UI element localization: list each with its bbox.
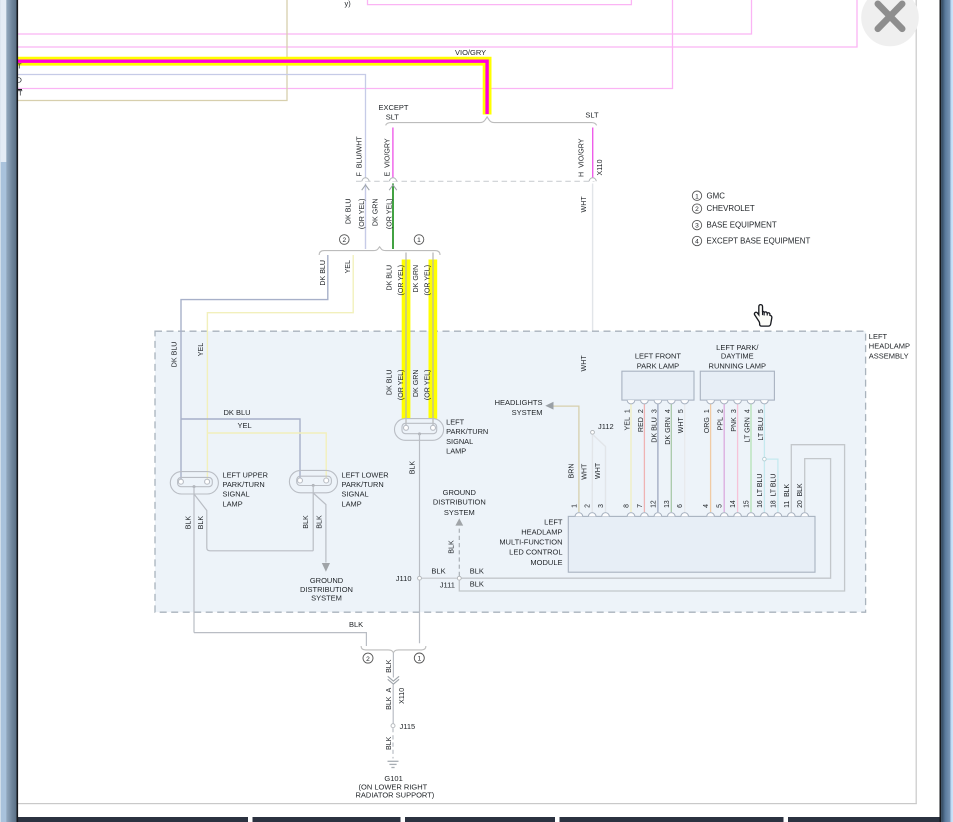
- highlight band DK GRN (OR YEL): [429, 260, 438, 419]
- svg-text:(OR YEL): (OR YEL): [424, 370, 432, 401]
- arrow ground distribution right: [455, 518, 463, 525]
- svg-text:HEADLIGHTS: HEADLIGHTS: [495, 398, 543, 407]
- svg-text:SLT: SLT: [386, 113, 400, 122]
- svg-text:3: 3: [695, 223, 699, 230]
- wire WHT to pin 3: [594, 435, 606, 512]
- svg-text:y): y): [345, 0, 351, 8]
- svg-text:18 LT BLU: 18 LT BLU: [770, 474, 777, 508]
- splice J112: [591, 430, 595, 434]
- svg-text:(OR YEL): (OR YEL): [397, 370, 405, 401]
- mouse cursor hand: [754, 305, 771, 327]
- svg-text:RUNNING LAMP: RUNNING LAMP: [709, 361, 767, 370]
- arrow headlights system: [545, 402, 553, 410]
- page border bottom: [18, 803, 917, 804]
- svg-text:12: 12: [650, 500, 657, 508]
- svg-text:BLK: BLK: [385, 736, 393, 750]
- svg-text:2: 2: [585, 504, 592, 508]
- chevron pin F: [362, 185, 370, 190]
- box LEFT FRONT PARK LAMP: [622, 371, 694, 400]
- svg-text:SIGNAL: SIGNAL: [223, 490, 250, 499]
- svg-text:BLK: BLK: [315, 515, 323, 529]
- svg-text:WHT 5: WHT 5: [677, 409, 685, 433]
- svg-text:E VIO/GRY: E VIO/GRY: [384, 138, 392, 176]
- svg-text:2: 2: [366, 656, 370, 663]
- svg-text:LAMP: LAMP: [446, 447, 466, 456]
- svg-text:BLK: BLK: [302, 515, 310, 529]
- svg-text:DK GRN: DK GRN: [372, 199, 380, 227]
- svg-text:YEL: YEL: [238, 421, 252, 430]
- svg-text:WHT: WHT: [580, 463, 588, 480]
- wire ORG pin 4: [710, 400, 712, 512]
- pin 6 bump: [681, 513, 689, 517]
- svg-text:LEFT: LEFT: [544, 517, 563, 526]
- pin 3 bump: [602, 513, 610, 517]
- splice J111: [457, 576, 461, 580]
- node circled 1 bottom: [414, 653, 424, 663]
- wire LT BLU branch pin 18: [767, 459, 778, 512]
- svg-text:BLK: BLK: [349, 620, 363, 629]
- pin 4 bump: [707, 513, 715, 517]
- svg-text:DK BLU: DK BLU: [224, 408, 251, 417]
- svg-text:1: 1: [417, 656, 421, 663]
- pin 13 bump: [668, 513, 676, 517]
- svg-text:1: 1: [571, 504, 578, 508]
- wire PNK pin 14: [737, 400, 739, 512]
- svg-text:DK BLU: DK BLU: [319, 260, 327, 286]
- svg-text:H VIO/GRY: H VIO/GRY: [578, 138, 586, 177]
- svg-text:LAMP: LAMP: [223, 499, 243, 508]
- svg-text:16 LT BLU: 16 LT BLU: [757, 474, 764, 508]
- pin E bump: [390, 178, 397, 181]
- svg-text:LAMP: LAMP: [342, 499, 362, 508]
- wire DK BLU to upper lamp: [181, 255, 328, 481]
- svg-text:DAYTIME: DAYTIME: [721, 352, 754, 361]
- node legend 1 GMC: [692, 191, 701, 200]
- lamp LEFT UPPER PARK/TURN SIGNAL LAMP: [170, 472, 218, 494]
- svg-text:1: 1: [417, 237, 421, 244]
- pin 15 bump: [747, 513, 755, 517]
- svg-text:LEFT FRONT: LEFT FRONT: [635, 352, 682, 361]
- svg-text:DK GRN: DK GRN: [412, 265, 420, 293]
- svg-text:4: 4: [703, 504, 710, 508]
- wire YEL pin 8: [630, 400, 632, 512]
- svg-text:6: 6: [677, 504, 684, 508]
- svg-text:5: 5: [717, 504, 724, 508]
- svg-text:GROUND: GROUND: [310, 576, 344, 585]
- svg-text:X110: X110: [596, 159, 604, 175]
- svg-text:LEFT UPPER: LEFT UPPER: [223, 470, 268, 479]
- wire LT BLU pin 16: [763, 400, 765, 512]
- splice LT BLU: [763, 457, 767, 461]
- wire pink PNK horizontal 3: [18, 0, 673, 89]
- svg-text:GMC: GMC: [707, 191, 726, 200]
- svg-text:VIO/GRY: VIO/GRY: [455, 48, 486, 57]
- wire LT GRN pin 15: [750, 400, 752, 512]
- svg-text:CHEVROLET: CHEVROLET: [707, 204, 755, 213]
- wire BLU/WHT lavender from left: [18, 75, 366, 182]
- wire BLK dashed to ground: [392, 728, 394, 758]
- pin 16 bump: [761, 513, 769, 517]
- pin 7 bump: [641, 513, 649, 517]
- svg-text:BLK: BLK: [385, 659, 393, 673]
- svg-text:J115: J115: [400, 722, 416, 731]
- pin 5 bump: [720, 513, 728, 517]
- wire DK BLU (OR YEL) highlighted: [405, 253, 407, 428]
- svg-text:(OR YEL): (OR YEL): [424, 265, 432, 296]
- svg-text:YEL: YEL: [344, 260, 352, 273]
- svg-text:RADIATOR SUPPORT): RADIATOR SUPPORT): [356, 790, 435, 799]
- highlighted trace yellow band VIO/GRY: [18, 61, 487, 114]
- wire BLK A below connector: [392, 685, 394, 724]
- wire BRN: [554, 406, 579, 512]
- wire RED pin 7: [643, 400, 645, 512]
- wire BLK dashed to ground distribution: [458, 527, 460, 576]
- wire BLK pin 11 loop: [459, 445, 844, 591]
- svg-text:YEL 1: YEL 1: [624, 409, 632, 430]
- bottom thumbnail bar: [18, 817, 940, 822]
- pin 2 bump: [588, 513, 596, 517]
- svg-text:BASE EQUIPMENT: BASE EQUIPMENT: [707, 221, 777, 230]
- svg-text:F BLU/WHT: F BLU/WHT: [356, 136, 364, 177]
- node legend 2 CHEVROLET: [692, 204, 701, 213]
- svg-text:WHT: WHT: [580, 196, 588, 213]
- wire E VIO/GRY upper: [392, 128, 394, 182]
- splice J115: [391, 724, 395, 728]
- svg-text:SYSTEM: SYSTEM: [444, 508, 475, 517]
- svg-text:LED CONTROL: LED CONTROL: [509, 548, 562, 557]
- wire pink PNK horizontal 2: [18, 0, 857, 47]
- wire YEL to upper lamp: [207, 255, 353, 481]
- svg-text:(OR YEL): (OR YEL): [358, 199, 366, 230]
- svg-text:20 BLK: 20 BLK: [797, 483, 804, 508]
- svg-text:PARK LAMP: PARK LAMP: [637, 361, 679, 370]
- svg-text:BLK: BLK: [470, 579, 484, 588]
- svg-text:15: 15: [744, 500, 751, 508]
- svg-text:MULTI-FUNCTION: MULTI-FUNCTION: [499, 537, 562, 546]
- svg-text:SYSTEM: SYSTEM: [311, 594, 342, 603]
- wire YEL branch to lower lamp: [207, 433, 326, 481]
- arrow ground distribution left: [322, 563, 330, 572]
- wire WHT to pin 2: [591, 435, 593, 512]
- wire BLK pin 20 loop: [462, 459, 831, 579]
- svg-text:J111: J111: [440, 581, 455, 590]
- wire BRN khaki top: [18, 0, 287, 101]
- svg-text:PARK/TURN: PARK/TURN: [342, 480, 384, 489]
- svg-text:DK GRN 4: DK GRN 4: [664, 409, 672, 445]
- wire DK BLU pin 12: [657, 400, 659, 512]
- wire VIO/GRY magenta core: [18, 61, 487, 114]
- box LEFT PARK/DAYTIME RUNNING LAMP: [700, 371, 774, 400]
- wire E DK GRN (OR YEL) below connector: [392, 184, 394, 250]
- svg-text:DK BLU: DK BLU: [171, 342, 179, 368]
- wire J110 to J111: [422, 577, 457, 579]
- box LEFT HEADLAMP ASSEMBLY dashed: [155, 331, 866, 612]
- wire BLK merged: [392, 653, 394, 678]
- svg-text:HEADLAMP: HEADLAMP: [521, 527, 562, 536]
- pin 20 bump: [801, 513, 809, 517]
- svg-text:DK BLU: DK BLU: [385, 265, 393, 291]
- svg-text:PARK/TURN: PARK/TURN: [223, 480, 265, 489]
- svg-text:8: 8: [624, 504, 631, 508]
- svg-text:RED 2: RED 2: [637, 409, 645, 432]
- svg-text:WHT: WHT: [580, 355, 588, 372]
- node circled 2 bottom: [363, 653, 373, 663]
- svg-text:BLK: BLK: [409, 461, 417, 475]
- svg-text:J112: J112: [598, 422, 614, 431]
- svg-text:LT BLU 5: LT BLU 5: [757, 409, 765, 440]
- chevron connector X110 pass-through: [388, 676, 399, 681]
- wire DK GRN pin 13: [670, 400, 672, 512]
- svg-text:SLT: SLT: [585, 110, 599, 119]
- splice J110: [418, 576, 422, 580]
- wire BLK bottom from upper lamp: [194, 633, 366, 646]
- node legend 4 EXCEPT BASE EQUIPMENT: [692, 236, 701, 245]
- wire BLK ground lower lamp to ground ref: [313, 493, 326, 563]
- wire pink rectangle top: [368, 0, 632, 5]
- svg-text:SYSTEM: SYSTEM: [512, 408, 543, 417]
- pin 18 bump: [774, 513, 782, 517]
- wire H WHT below connector: [592, 184, 594, 433]
- node circled 2: [340, 235, 350, 245]
- svg-text:(OR YEL): (OR YEL): [397, 265, 405, 296]
- svg-text:BLK: BLK: [470, 567, 484, 576]
- svg-text:EXCEPT BASE EQUIPMENT: EXCEPT BASE EQUIPMENT: [707, 237, 811, 246]
- window border right bar: [940, 0, 942, 822]
- svg-text:BLK: BLK: [197, 516, 205, 530]
- wire WHT pin 6: [684, 400, 686, 512]
- svg-text:DK BLU: DK BLU: [345, 199, 353, 225]
- svg-text:2: 2: [342, 237, 346, 244]
- lamp LEFT PARK/TURN SIGNAL LAMP: [395, 419, 444, 441]
- wire pink PNK horizontal 1: [18, 0, 752, 34]
- svg-text:PARK/TURN: PARK/TURN: [446, 427, 488, 436]
- svg-text:DK GRN: DK GRN: [412, 370, 420, 398]
- svg-text:ASSEMBLY: ASSEMBLY: [869, 351, 909, 360]
- pin F bump: [362, 178, 369, 181]
- close button: [861, 0, 919, 46]
- svg-text:BLK: BLK: [184, 516, 192, 530]
- wire PPL pin 5: [723, 400, 725, 512]
- svg-text:LEFT LOWER: LEFT LOWER: [342, 470, 389, 479]
- pin 12 bump: [654, 513, 662, 517]
- svg-text:4: 4: [695, 239, 699, 246]
- svg-text:HEADLAMP: HEADLAMP: [869, 342, 910, 351]
- svg-text:YEL: YEL: [197, 343, 205, 356]
- svg-text:ORG 1: ORG 1: [703, 409, 711, 433]
- svg-text:11 BLK: 11 BLK: [784, 483, 791, 507]
- svg-text:GROUND: GROUND: [443, 488, 477, 497]
- highlight band DK BLU (OR YEL): [402, 260, 411, 419]
- svg-text:2: 2: [695, 206, 699, 213]
- svg-text:DISTRIBUTION: DISTRIBUTION: [433, 498, 486, 507]
- node legend 3 BASE EQUIPMENT: [692, 220, 701, 229]
- svg-text:LEFT: LEFT: [869, 332, 888, 341]
- svg-text:BLK A: BLK A: [385, 688, 393, 710]
- wire BLK ground upper lamp to joint: [194, 494, 313, 551]
- page border right: [916, 0, 917, 804]
- chevron pin E: [389, 185, 397, 190]
- lamp LEFT LOWER PARK/TURN SIGNAL LAMP: [289, 470, 337, 492]
- svg-text:13: 13: [664, 500, 671, 508]
- svg-text:PPL 2: PPL 2: [717, 409, 725, 430]
- pin 8 bump: [627, 513, 635, 517]
- wire BLK ground upper lamp long: [193, 487, 195, 633]
- wire H VIO/GRY upper: [592, 128, 594, 182]
- connector X110 dashed line: [356, 180, 595, 182]
- pin 11 bump: [788, 513, 796, 517]
- wire DK BLU branch to lower lamp: [181, 419, 300, 481]
- module LEFT HEADLAMP MULTI-FUNCTION LED CONTROL MODULE: [568, 516, 815, 572]
- pin 1 bump: [575, 513, 583, 517]
- brace ground merge: [361, 646, 426, 653]
- svg-text:WHT: WHT: [594, 462, 602, 479]
- wire F DK BLU (OR YEL) below connector: [365, 184, 367, 250]
- brace wire alternates: [319, 247, 440, 255]
- brace EXCEPT-SLT/SLT: [386, 117, 597, 126]
- svg-text:MODULE: MODULE: [530, 558, 562, 567]
- svg-text:SIGNAL: SIGNAL: [342, 490, 369, 499]
- pin H bump: [589, 178, 596, 181]
- svg-text:3: 3: [598, 504, 605, 508]
- svg-text:LEFT: LEFT: [446, 418, 465, 427]
- svg-text:(OR YEL): (OR YEL): [386, 199, 394, 230]
- wire BLK ground park/turn lamp: [419, 434, 421, 643]
- pin 14 bump: [734, 513, 742, 517]
- svg-text:1: 1: [695, 193, 699, 200]
- svg-text:BRN: BRN: [568, 464, 576, 479]
- svg-text:7: 7: [637, 504, 644, 508]
- svg-text:DK BLU: DK BLU: [385, 370, 393, 396]
- svg-text:BLK: BLK: [448, 540, 456, 554]
- ground G101 symbol: [388, 761, 399, 767]
- svg-text:LT GRN 4: LT GRN 4: [744, 409, 752, 442]
- svg-text:DK BLU 3: DK BLU 3: [650, 409, 658, 443]
- svg-text:X110: X110: [398, 688, 406, 704]
- svg-text:BLK: BLK: [431, 567, 445, 576]
- svg-text:J110: J110: [396, 574, 412, 583]
- svg-text:PNK 3: PNK 3: [730, 409, 738, 432]
- svg-text:14: 14: [730, 500, 737, 508]
- svg-text:SIGNAL: SIGNAL: [446, 437, 473, 446]
- node circled 1: [414, 235, 424, 245]
- svg-text:EXCEPT: EXCEPT: [378, 103, 408, 112]
- wire BLK ground lower lamp to joint: [312, 485, 314, 550]
- wire DK GRN (OR YEL) highlighted: [432, 253, 434, 428]
